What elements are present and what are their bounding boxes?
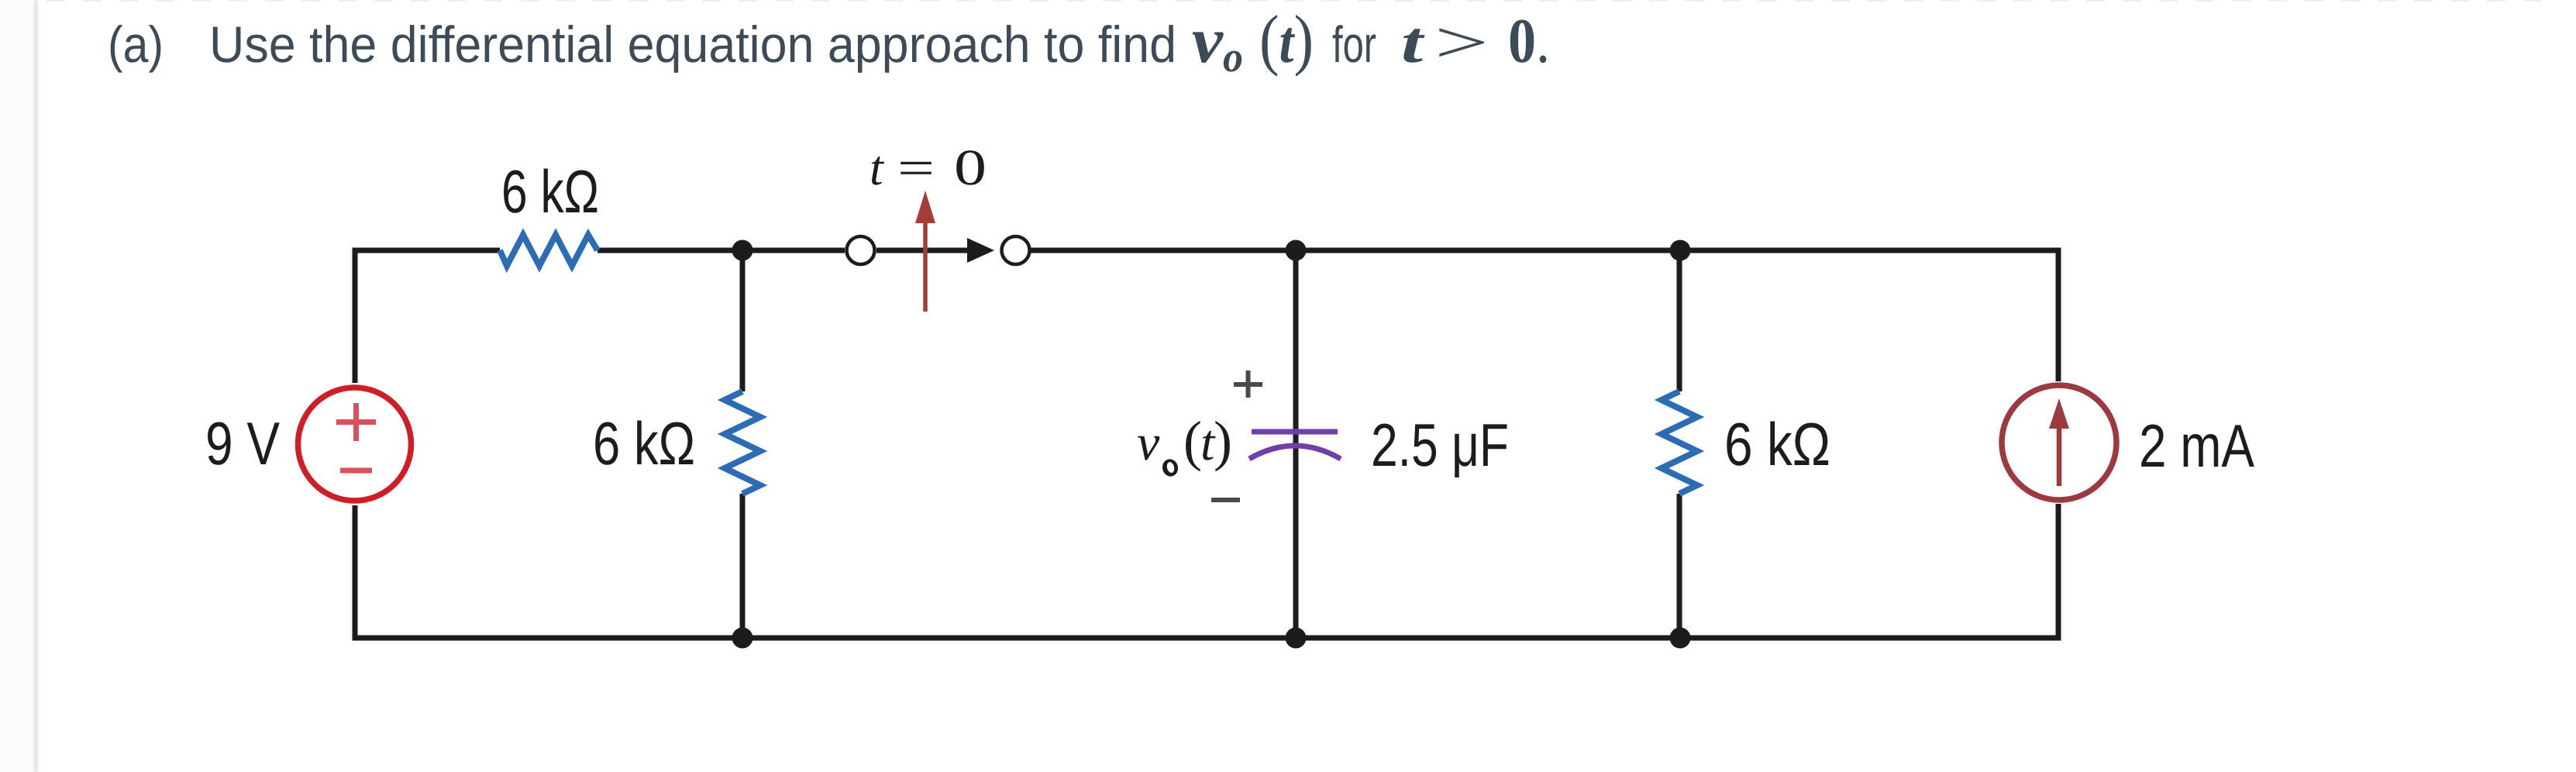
svg-text:v: v [1192, 5, 1224, 77]
svg-text:): ) [1214, 410, 1232, 472]
svg-text:o: o [1223, 33, 1243, 81]
svg-text:>: > [1434, 10, 1489, 75]
svg-text:Use the differential equation: Use the differential equation approach t… [209, 16, 1176, 73]
svg-text:0.: 0. [1508, 5, 1550, 76]
svg-text:t: t [870, 140, 885, 195]
svg-text:(: ( [1183, 410, 1202, 472]
svg-text:v: v [1137, 415, 1160, 471]
svg-text:for: for [1332, 16, 1376, 73]
svg-text:6 kΩ: 6 kΩ [593, 409, 695, 477]
svg-text:9 V: 9 V [205, 409, 280, 477]
svg-text:0: 0 [954, 140, 987, 196]
svg-text:(a): (a) [108, 16, 164, 73]
svg-text:2.5 μF: 2.5 μF [1371, 411, 1509, 479]
svg-text:2 mA: 2 mA [2139, 412, 2254, 480]
svg-text:t: t [1401, 10, 1426, 75]
svg-text:6 kΩ: 6 kΩ [501, 157, 599, 226]
svg-text:(t): (t) [1259, 2, 1314, 78]
svg-text:6 kΩ: 6 kΩ [1724, 410, 1830, 478]
svg-text:=: = [897, 140, 935, 195]
